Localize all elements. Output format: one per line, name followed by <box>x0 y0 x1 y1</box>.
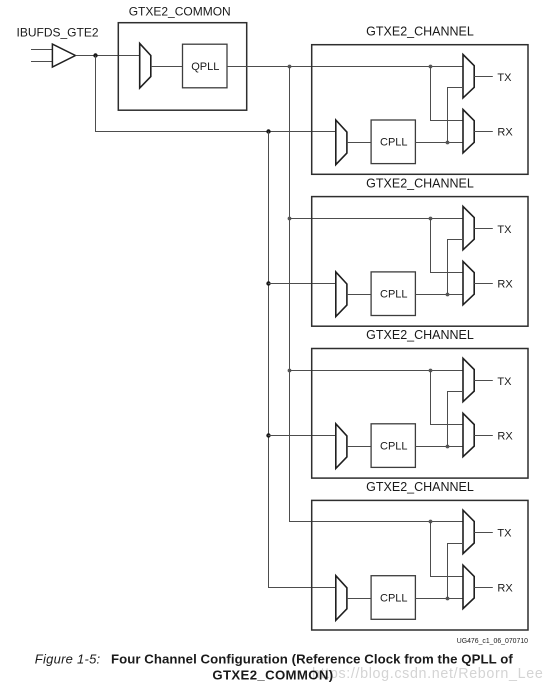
wire refclk to channel 1 CPLL mux <box>96 131 336 133</box>
label IBUFDS_GTE2 <box>17 26 99 40</box>
svg-text:CPLL: CPLL <box>380 441 408 453</box>
svg-text:TX: TX <box>497 72 512 84</box>
svg-text:TX: TX <box>497 224 512 236</box>
wire QPLL branch to channel 4 <box>290 521 464 523</box>
mux channel 2 CPLL reference mux <box>336 272 347 317</box>
wire channel 2 TX output <box>474 228 493 230</box>
label GTXE2_CHANNEL 2 <box>366 176 474 190</box>
wire channel 4 CPLL clock rise to TX mux <box>447 544 463 599</box>
node channel 2 TX clock tap <box>429 217 433 221</box>
label channel 3 RX <box>497 430 513 442</box>
node refclk junction <box>93 53 97 57</box>
mux channel 4 CPLL reference mux <box>336 576 347 621</box>
label figure number UG476_c1_06_070710 <box>457 638 528 645</box>
wire QPLL branch to channel 3 <box>290 370 464 372</box>
pll channel 4 CPLL <box>371 576 415 620</box>
svg-text:GTXE2_CHANNEL: GTXE2_CHANNEL <box>366 480 474 494</box>
pll channel 2 CPLL <box>371 272 415 316</box>
wire refclk branch to channel 3 <box>268 435 336 437</box>
wire channel 4 TX output <box>474 532 493 534</box>
wire channel 4 RX output <box>474 587 493 589</box>
svg-text:CPLL: CPLL <box>380 592 408 604</box>
mux channel 2 RX clock mux <box>463 261 474 304</box>
mux channel 4 RX clock mux <box>463 565 474 608</box>
pll QPLL <box>183 44 228 88</box>
svg-text:RX: RX <box>497 582 513 594</box>
wire QPLL vertical bus <box>289 67 291 523</box>
label GTXE2_CHANNEL 4 <box>366 480 474 494</box>
label channel 3 CPLL <box>380 441 408 453</box>
svg-text:GTXE2_CHANNEL: GTXE2_CHANNEL <box>366 176 474 190</box>
svg-text:IBUFDS_GTE2: IBUFDS_GTE2 <box>17 26 99 40</box>
node channel 2 CPLL output tap <box>446 293 450 297</box>
node channel 1 TX clock tap <box>429 65 433 69</box>
node refclk tap channel 3 <box>266 433 270 437</box>
label channel 4 CPLL <box>380 592 408 604</box>
wire QPLL branch to channel 2 <box>290 218 464 220</box>
svg-text:UG476_c1_06_070710: UG476_c1_06_070710 <box>457 638 528 645</box>
label caption title line 1 <box>111 651 513 666</box>
wire channel 4 CPLL output to RX mux <box>415 598 463 600</box>
wire channel 1 TX output <box>474 76 493 78</box>
svg-text:GTXE2_CHANNEL: GTXE2_CHANNEL <box>366 328 474 342</box>
svg-text:GTXE2_COMMON: GTXE2_COMMON <box>129 4 231 18</box>
label channel 1 RX <box>497 127 513 139</box>
mux channel 1 TX clock mux <box>463 55 474 98</box>
wire channel 3 CPLL clock rise to TX mux <box>447 392 463 447</box>
wire channel 2 RX output <box>474 283 493 285</box>
wire channel 1 QPLL clock drop to RX mux <box>430 67 463 121</box>
label GTXE2_CHANNEL 3 <box>366 328 474 342</box>
node QPLL tap channel 2 <box>288 217 292 221</box>
wire refclk branch to channel 4 <box>268 587 336 589</box>
node channel 1 CPLL output tap <box>446 141 450 145</box>
wire channel 1 RX output <box>474 131 493 133</box>
svg-text:TX: TX <box>497 528 512 540</box>
svg-text:Four Channel Configuration (Re: Four Channel Configuration (Reference Cl… <box>111 651 513 666</box>
node channel 4 TX clock tap <box>429 520 433 524</box>
wire channel 3 mux to CPLL <box>347 446 371 448</box>
label channel 1 CPLL <box>380 137 408 149</box>
wire channel 4 mux to CPLL <box>347 598 371 600</box>
mux channel 3 TX clock mux <box>463 358 474 401</box>
wire QPLL output to channel 1 TX mux <box>227 66 463 68</box>
block GTXE2_COMMON <box>118 23 246 111</box>
wire channel 3 TX output <box>474 380 493 382</box>
wire channel 2 CPLL clock rise to TX mux <box>447 240 463 295</box>
wire channel 1 CPLL output to RX mux <box>415 142 463 144</box>
watermark blog.csdn.net <box>312 666 543 682</box>
label channel 2 TX <box>497 224 512 236</box>
svg-text:QPLL: QPLL <box>191 61 219 73</box>
wire refclk branch to channel 2 <box>268 283 336 285</box>
buffer IBUFDS_GTE2 <box>52 44 75 67</box>
block GTXE2_CHANNEL 4 <box>312 500 528 630</box>
wire channel 3 RX output <box>474 435 493 437</box>
wire channel 3 QPLL clock drop to RX mux <box>430 371 463 425</box>
wire IBUFDS input stub 2 <box>31 61 54 63</box>
mux channel 1 CPLL reference mux <box>336 120 347 165</box>
node QPLL tap channel 3 <box>288 369 292 373</box>
node channel 4 CPLL output tap <box>446 597 450 601</box>
label channel 4 TX <box>497 528 512 540</box>
mux channel 2 TX clock mux <box>463 206 474 249</box>
wire channel 2 QPLL clock drop to RX mux <box>430 219 463 273</box>
wire channel 2 mux to CPLL <box>347 294 371 296</box>
wire channel 1 mux to CPLL <box>347 142 371 144</box>
label caption Figure 1-5 <box>35 651 101 666</box>
label channel 4 RX <box>497 582 513 594</box>
svg-text:TX: TX <box>497 376 512 388</box>
svg-text:GTXE2_CHANNEL: GTXE2_CHANNEL <box>366 24 474 38</box>
node channel 3 TX clock tap <box>429 369 433 373</box>
wire mux to QPLL <box>151 66 183 68</box>
svg-text:Figure 1-5:: Figure 1-5: <box>35 651 101 666</box>
svg-text:RX: RX <box>497 127 513 139</box>
wire refclk junction drop <box>95 56 97 133</box>
pll channel 3 CPLL <box>371 424 415 468</box>
label caption title line 2 <box>212 667 333 682</box>
wire IBUFDS output to QPLL refclk mux <box>75 55 139 57</box>
wire channel 2 CPLL output to RX mux <box>415 294 463 296</box>
svg-text:https://blog.csdn.net/Reborn_L: https://blog.csdn.net/Reborn_Lee <box>312 666 543 682</box>
node refclk bus tap <box>266 129 270 133</box>
pll channel 1 CPLL <box>371 120 415 164</box>
mux QPLL reference mux <box>140 43 151 88</box>
wire channel 1 CPLL clock rise to TX mux <box>447 88 463 143</box>
label channel 1 TX <box>497 72 512 84</box>
wire refclk vertical bus <box>268 132 270 588</box>
label channel 2 CPLL <box>380 289 408 301</box>
svg-text:RX: RX <box>497 430 513 442</box>
block GTXE2_CHANNEL 1 <box>312 45 528 175</box>
mux channel 1 RX clock mux <box>463 110 474 153</box>
svg-text:CPLL: CPLL <box>380 289 408 301</box>
label channel 3 TX <box>497 376 512 388</box>
wire IBUFDS input stub 1 <box>31 49 54 51</box>
block GTXE2_CHANNEL 2 <box>312 197 528 327</box>
svg-text:RX: RX <box>497 279 513 291</box>
mux channel 4 TX clock mux <box>463 510 474 553</box>
label GTXE2_COMMON <box>129 4 231 18</box>
node channel 3 CPLL output tap <box>446 445 450 449</box>
mux channel 3 RX clock mux <box>463 413 474 456</box>
label channel 2 RX <box>497 279 513 291</box>
wire channel 3 CPLL output to RX mux <box>415 446 463 448</box>
node refclk tap channel 2 <box>266 281 270 285</box>
block GTXE2_CHANNEL 3 <box>312 349 528 479</box>
svg-text:GTXE2_COMMON): GTXE2_COMMON) <box>212 667 333 682</box>
wire channel 4 QPLL clock drop to RX mux <box>430 522 463 577</box>
label QPLL <box>191 61 219 73</box>
node QPLL bus tap <box>288 65 292 69</box>
svg-text:CPLL: CPLL <box>380 137 408 149</box>
label GTXE2_CHANNEL 1 <box>366 24 474 38</box>
mux channel 3 CPLL reference mux <box>336 424 347 469</box>
